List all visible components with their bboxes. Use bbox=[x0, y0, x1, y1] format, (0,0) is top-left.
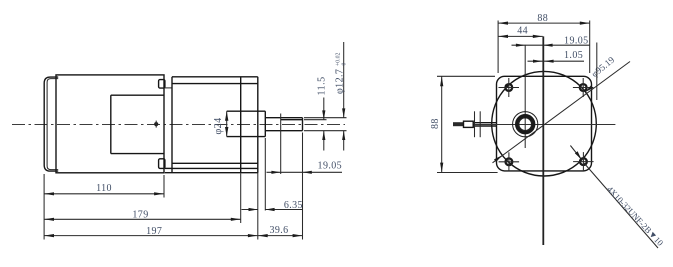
extension lines bottom dims bbox=[44, 133, 302, 240]
svg-text:110: 110 bbox=[96, 183, 112, 194]
shaft flat start line / extension bbox=[280, 114, 282, 175]
svg-text:179: 179 bbox=[132, 210, 148, 221]
svg-text:6.35: 6.35 bbox=[284, 200, 303, 211]
dimension 88 top bbox=[498, 13, 590, 25]
motor body bbox=[56, 75, 164, 173]
shaft vertical center line bbox=[524, 45, 526, 148]
leader 4X thread callout bbox=[570, 146, 665, 249]
front flange square bbox=[497, 76, 592, 171]
motor body circle phi95.19 bbox=[492, 71, 597, 176]
dimension 19.05 (shaft offset) bbox=[512, 35, 590, 46]
mounting screw tab top bbox=[159, 80, 172, 89]
mounting hole top-right bbox=[573, 78, 594, 97]
svg-text:0: 0 bbox=[342, 63, 348, 66]
svg-text:4X10-32UNF-2B▼10: 4X10-32UNF-2B▼10 bbox=[605, 184, 665, 248]
svg-text:88: 88 bbox=[430, 118, 441, 129]
dimension phi12.7 +0.02/0 bbox=[335, 42, 348, 151]
mounting screw tab bottom bbox=[159, 159, 172, 169]
svg-text:φ24: φ24 bbox=[213, 118, 224, 135]
dimension phi24 (vertical, on boss left edge) bbox=[213, 111, 228, 136]
dimension 44 bbox=[498, 25, 543, 38]
diameter line phi95.19 bbox=[493, 55, 631, 163]
rear shaft stub (left protrusion) bbox=[453, 111, 497, 137]
svg-text:φ12.7: φ12.7 bbox=[335, 69, 346, 94]
output boss (phi 24) bbox=[227, 111, 266, 136]
gearbox housing bbox=[165, 77, 258, 173]
extension lines for shaft dims (right top) bbox=[304, 118, 347, 131]
dimension 11.5 (flat) bbox=[316, 76, 327, 150]
top extension lines bbox=[498, 21, 597, 101]
mounting hole top-left bbox=[499, 78, 520, 97]
center line (side view axis) bbox=[12, 124, 345, 126]
center vent dot on motor bbox=[154, 121, 158, 128]
svg-text:11.5: 11.5 bbox=[316, 76, 327, 95]
front view horizontal center line bbox=[473, 124, 615, 126]
dimension 1.05 bbox=[528, 50, 585, 63]
front view vertical center line bbox=[542, 36, 544, 245]
dimension 39.6 bbox=[258, 225, 303, 237]
svg-text:φ95.19: φ95.19 bbox=[590, 55, 617, 80]
shaft and hub circles bbox=[513, 112, 538, 137]
dimension 88 left bbox=[430, 76, 444, 172]
output shaft bbox=[265, 118, 302, 131]
dimension 110 bbox=[44, 183, 164, 195]
svg-text:19.05: 19.05 bbox=[564, 35, 589, 46]
svg-text:19.05: 19.05 bbox=[318, 160, 343, 171]
svg-text:44: 44 bbox=[517, 25, 528, 36]
left extension lines bbox=[437, 76, 498, 172]
svg-text:39.6: 39.6 bbox=[269, 225, 288, 236]
dimension 197 bbox=[44, 226, 258, 237]
dimension 179 bbox=[44, 210, 241, 221]
dimension 19.05 (shaft flat) bbox=[267, 160, 343, 174]
mounting hole bottom-left bbox=[499, 152, 519, 171]
dimension 6.35 bbox=[242, 200, 303, 211]
svg-text:88: 88 bbox=[537, 13, 548, 24]
motor rear cap bbox=[44, 77, 58, 171]
mounting hole bottom-right bbox=[573, 152, 594, 171]
svg-text:197: 197 bbox=[146, 226, 162, 237]
motor front step (notch) bbox=[111, 95, 164, 153]
svg-text:1.05: 1.05 bbox=[564, 50, 583, 61]
